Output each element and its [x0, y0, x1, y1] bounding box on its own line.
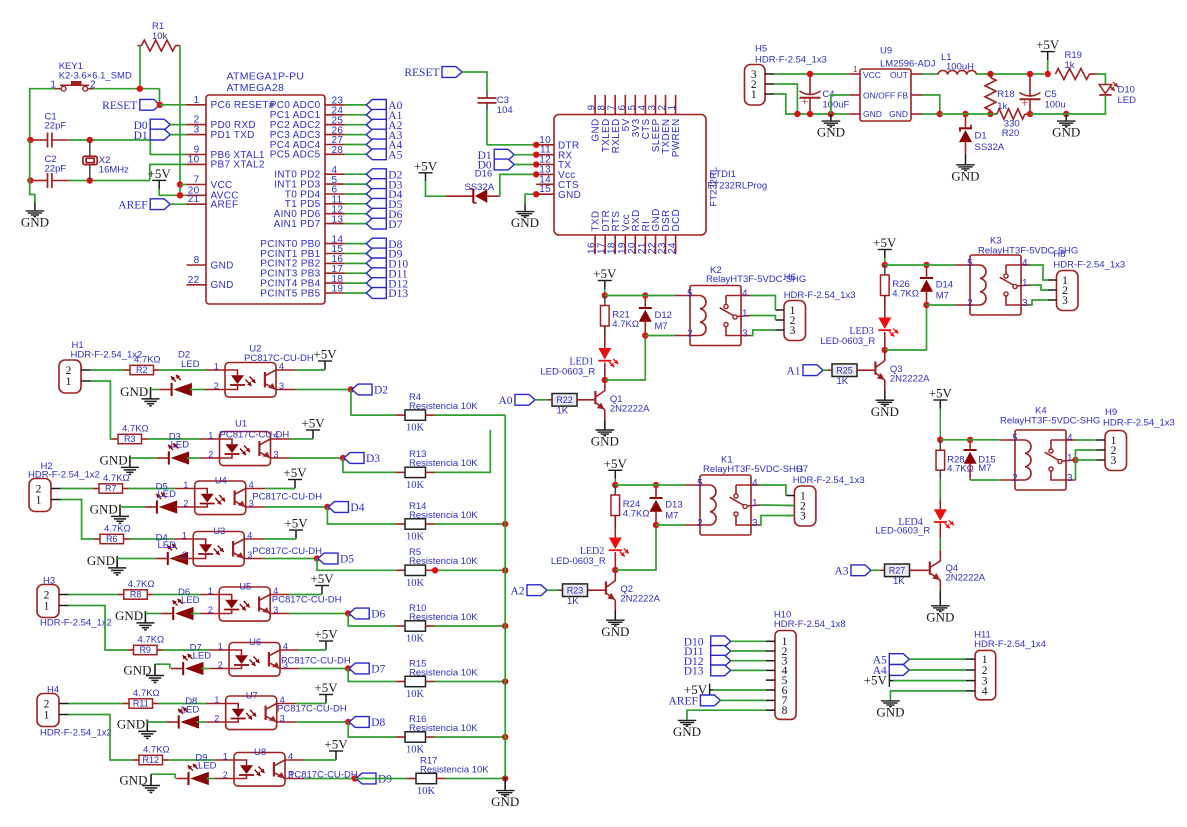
svg-text:R3: R3 — [124, 434, 136, 444]
svg-text:3: 3 — [1111, 455, 1117, 467]
svg-text:4: 4 — [752, 478, 758, 489]
junction RESET — [157, 102, 163, 108]
svg-text:4: 4 — [288, 752, 293, 762]
junction R5 right — [432, 567, 438, 573]
svg-text:4: 4 — [283, 642, 288, 652]
svg-text:2N2222A: 2N2222A — [620, 594, 660, 605]
svg-text:GND: GND — [120, 384, 148, 399]
svg-text:+5V: +5V — [324, 737, 348, 752]
ground GND (C4) — [830, 114, 832, 121]
wire down to RESET flag — [159, 89, 161, 105]
junction bus R5 — [502, 567, 508, 573]
pin 16 PCINT2 PB2 — [325, 262, 345, 264]
pin 9 PB6 XTAL1 — [187, 154, 207, 156]
wire pin 23 to flag A0 — [345, 104, 366, 106]
pin 4 (U6) — [280, 649, 299, 651]
svg-text:3: 3 — [742, 329, 748, 340]
pin 2 (U4) — [175, 506, 194, 508]
svg-text:PC817C-CU-DH: PC817C-CU-DH — [252, 546, 322, 557]
svg-text:+5V: +5V — [929, 386, 953, 401]
junction C4 top — [807, 71, 813, 77]
svg-text:R8: R8 — [130, 590, 142, 600]
resistor R20 330 — [997, 109, 1025, 119]
pin 4 (K2) — [726, 295, 751, 297]
ground GND (row D5) — [116, 556, 118, 568]
crystal X2 16MHz — [89, 140, 91, 156]
lead to LED D2 — [159, 389, 171, 391]
wire D12 bottom to relay K2 pin 2 — [645, 335, 675, 337]
wire D0 to pin 2 — [170, 124, 186, 126]
wire U6 pin3 to flag D7 — [299, 668, 348, 670]
junction VCC pin 7 — [177, 181, 183, 187]
svg-text:3: 3 — [274, 450, 279, 460]
pin 18 PCINT4 PB4 — [325, 282, 345, 284]
resistor R22 1K — [552, 394, 577, 407]
transistor Q1 2N2222A — [594, 391, 596, 404]
svg-text:10K: 10K — [406, 423, 425, 434]
capacitor C5 100u — [1029, 74, 1031, 96]
svg-text:+5V: +5V — [1036, 37, 1060, 52]
wire pin 6 to flag D4 — [345, 193, 366, 195]
svg-text:U1: U1 — [235, 419, 247, 430]
net flag A1 — [366, 109, 386, 120]
svg-text:GND: GND — [211, 260, 234, 271]
pin 17 PCINT3 PB3 — [325, 272, 345, 274]
wire C2 to X2 bottom / XTAL2 net — [69, 180, 150, 182]
LED D6 — [172, 607, 174, 620]
wire D10 to GND rail — [1066, 95, 1105, 114]
junction LED3/collector — [882, 347, 888, 353]
wire C1 to X2 top / XTAL1 net — [69, 139, 150, 141]
svg-text:LED: LED — [181, 705, 200, 716]
svg-text:GND: GND — [558, 190, 581, 201]
svg-text:LED: LED — [1118, 95, 1137, 106]
pin 8 TXLED (top) — [604, 95, 606, 115]
ground GND (FTDI) — [524, 204, 526, 212]
svg-text:2: 2 — [967, 298, 973, 309]
svg-text:H6: H6 — [784, 272, 796, 283]
pin 23 PC0 ADC0 — [325, 104, 345, 106]
svg-text:3: 3 — [194, 125, 200, 136]
wire A1 to R25 — [823, 369, 828, 371]
pin 1 (H1) — [81, 380, 91, 382]
svg-text:1: 1 — [1067, 453, 1073, 464]
wire D5 down to R5 — [317, 559, 396, 571]
svg-text:HDR-F-2.54_1x2: HDR-F-2.54_1x2 — [71, 350, 143, 361]
pin 21 AREF — [187, 203, 207, 205]
svg-text:PC817C-CU-DH: PC817C-CU-DH — [244, 353, 314, 364]
pin 21 RI (bottom) — [644, 235, 646, 254]
svg-text:RESET: RESET — [404, 67, 439, 79]
pin 1 (U5) — [200, 594, 219, 596]
wire +5V to H10 pin6 — [714, 689, 766, 691]
wire H2 to R6 — [61, 500, 95, 540]
wire K4 pin4 to H9 pin1 — [1076, 439, 1097, 441]
wire D13 net to collector node — [615, 525, 656, 570]
wire D10 to H10 pin 1 — [731, 640, 766, 642]
pin 12 TX (left) — [536, 164, 554, 166]
pin 1 (K1) — [747, 505, 760, 506]
svg-text:24: 24 — [667, 242, 678, 254]
svg-text:3: 3 — [790, 325, 796, 337]
net flag D13 (H10) — [711, 665, 731, 676]
diode D14 M7 — [926, 265, 928, 278]
wire LED D8 to U7 pin2 — [197, 721, 207, 723]
pin 10 DTR (left) — [536, 144, 554, 146]
svg-text:D13: D13 — [388, 288, 408, 300]
wire K2 pin3 to H6 pin3 — [751, 330, 776, 336]
pin 1 (H7) — [786, 495, 795, 497]
wire K3 pin1 to H8 pin2 — [1030, 285, 1049, 290]
svg-text:LED: LED — [158, 489, 177, 500]
svg-text:Resistencia 10K: Resistencia 10K — [409, 401, 478, 412]
svg-text:U5: U5 — [239, 582, 251, 593]
junction D15 top — [967, 437, 973, 443]
svg-text:U8: U8 — [254, 747, 266, 758]
net flag D7 — [366, 218, 386, 229]
svg-text:1: 1 — [208, 431, 213, 441]
resistor R1 10k — [142, 40, 176, 51]
ground GND (Q4) — [939, 591, 941, 606]
wire +5V to U3 pin4 — [264, 538, 296, 540]
wire K1 pin1 to H7 pin2 — [760, 504, 795, 507]
pin 24 DCD (bottom) — [675, 235, 677, 254]
pin 15 PCINT1 PB1 — [325, 253, 345, 255]
wire D11 to H10 pin 2 — [731, 650, 766, 652]
wire D13 bottom to relay K1 pin 2 — [656, 524, 685, 526]
junction C2 left — [27, 177, 33, 183]
svg-text:2: 2 — [182, 550, 187, 560]
resistor R17 Resistencia 10K — [407, 778, 416, 780]
wire AREF to H10 pin7 — [720, 699, 765, 701]
wire pin 14 to flag D8 — [345, 243, 366, 245]
svg-text:GND: GND — [117, 716, 145, 731]
ground GND (crystal) — [34, 203, 36, 211]
svg-text:+5V: +5V — [310, 571, 334, 586]
svg-text:R2: R2 — [136, 365, 148, 375]
svg-text:1: 1 — [1022, 278, 1028, 289]
svg-text:LED-0603_R: LED-0603_R — [551, 556, 606, 567]
pin 20 AVCC — [187, 194, 207, 196]
svg-text:LED: LED — [181, 595, 200, 606]
resistor R10 Resistencia 10K — [396, 625, 405, 627]
wire D12 net to collector node — [605, 336, 646, 381]
pin 1 (H8) — [1048, 279, 1057, 281]
svg-text:2: 2 — [223, 770, 228, 780]
svg-text:DCD: DCD — [671, 209, 682, 232]
resistor R28 4.7KOhm — [939, 440, 941, 450]
wire R12 to U8 pin1 — [169, 759, 215, 761]
junction D6 — [345, 610, 351, 616]
wire +5V down to D16 — [426, 181, 447, 196]
pin 2 (K3 coil-) — [955, 304, 980, 306]
LED D2 — [171, 383, 173, 396]
svg-text:GND: GND — [123, 663, 151, 678]
pin 2 (U1) — [200, 457, 219, 459]
svg-text:VCC: VCC — [863, 70, 881, 80]
svg-text:8: 8 — [194, 255, 200, 266]
svg-text:PC817C-CU-DH: PC817C-CU-DH — [281, 656, 351, 667]
pin 4 (U2) — [276, 369, 295, 371]
pin 1 (H3) — [59, 605, 69, 607]
svg-text:+5V: +5V — [283, 465, 307, 480]
pin 4 (H10) — [766, 669, 775, 671]
junction bus R14 — [502, 521, 508, 527]
resistor R27 1K — [885, 564, 910, 577]
wire R16 to bus — [435, 736, 506, 738]
pin 4 (U5) — [270, 594, 289, 596]
svg-text:R23: R23 — [567, 585, 584, 595]
svg-text:D2: D2 — [374, 385, 388, 397]
svg-text:R6: R6 — [106, 534, 118, 544]
wire H5 pin1 to GND rail — [774, 94, 849, 114]
junction D14 top — [923, 262, 929, 268]
wire D12 to H10 pin 3 — [731, 660, 766, 662]
wire R10 to bus — [435, 625, 506, 627]
svg-text:3: 3 — [279, 381, 284, 391]
wire H11 pin4 to GND — [890, 691, 966, 700]
junction AVCC pin 20 — [177, 192, 183, 198]
svg-text:D8: D8 — [371, 717, 385, 729]
net flag D1 (to TXD) — [150, 129, 170, 140]
svg-text:1: 1 — [208, 586, 213, 596]
svg-text:LED-0603_R: LED-0603_R — [540, 367, 595, 378]
pin 1 (K4) — [1062, 460, 1075, 461]
junction D1 top — [962, 111, 968, 117]
svg-text:GND: GND — [511, 215, 539, 230]
pin 4 (U4) — [246, 488, 265, 490]
wire R9 to U6 pin1 — [163, 649, 210, 651]
optocoupler U7 PC817C-CU-DH — [226, 696, 277, 730]
svg-text:A3: A3 — [834, 566, 848, 578]
pin 3 PD1 TXD — [187, 134, 207, 136]
resistor R9 4.7KOhm — [128, 649, 134, 651]
svg-text:2: 2 — [183, 499, 188, 509]
svg-text:1: 1 — [36, 494, 42, 506]
svg-text:H7: H7 — [796, 464, 808, 475]
resistor R19 1k — [1055, 69, 1089, 80]
svg-text:R9: R9 — [139, 645, 151, 655]
pin 1 VCC (U9) — [849, 73, 860, 75]
svg-text:D1: D1 — [975, 131, 987, 142]
svg-text:22: 22 — [188, 275, 200, 286]
junction +5V R26 — [882, 262, 888, 268]
pin 1 (U3) — [174, 538, 193, 540]
junction +5V R28 — [937, 437, 943, 443]
svg-text:GND: GND — [876, 705, 904, 720]
junction D8 — [345, 719, 351, 725]
svg-text:1: 1 — [218, 642, 223, 652]
wire +5V to U4 pin4 — [265, 488, 295, 490]
pin 17 DTR (bottom) — [604, 235, 606, 254]
pin 20 RXD (bottom) — [634, 235, 636, 254]
net flag D3 (row) — [344, 453, 364, 464]
ground GND (row D2) — [150, 387, 152, 399]
lead to LED D9 — [176, 778, 188, 780]
net flag D12 — [366, 278, 386, 289]
svg-text:LED: LED — [193, 651, 212, 662]
lead to LED D7 — [171, 668, 183, 670]
net flag D6 — [366, 208, 386, 219]
svg-text:1: 1 — [752, 498, 758, 509]
wire +5V to U2 pin4 — [295, 369, 325, 371]
net flag A0 — [515, 394, 535, 405]
ground GND (Q2) — [614, 610, 616, 619]
wire R17 to bus — [446, 778, 506, 780]
wire D1 to pin 11 — [514, 154, 536, 156]
resistor R5 Resistencia 10K — [396, 569, 405, 571]
svg-text:+5V: +5V — [313, 347, 337, 362]
LED D9 — [188, 772, 190, 785]
junction D13 bottom — [653, 522, 659, 528]
pin 5 INT1 PD3 — [325, 183, 345, 185]
pin 26 PC3 ADC3 — [325, 134, 345, 136]
svg-text:4.7KΩ: 4.7KΩ — [103, 473, 130, 484]
ground GND (D1) — [965, 154, 967, 165]
junction KEY1/R1 — [137, 86, 143, 92]
pin 4 (U3) — [244, 538, 263, 540]
svg-text:1: 1 — [44, 600, 50, 612]
pin 12 AIN0 PD6 — [325, 213, 345, 215]
net flag D13 — [366, 288, 386, 299]
svg-text:LM2596-ADJ: LM2596-ADJ — [880, 59, 936, 70]
net flag D8 (row) — [349, 717, 369, 728]
svg-text:GND: GND — [87, 553, 115, 568]
wire LED D9 to U8 pin2 — [206, 778, 214, 780]
junction D4 — [324, 504, 330, 510]
svg-text:4: 4 — [247, 531, 252, 541]
pin 1 (H11) — [966, 658, 975, 660]
ground GND (Q1) — [604, 420, 606, 429]
svg-text:HDR-F-2.54_1x3: HDR-F-2.54_1x3 — [793, 475, 865, 486]
net flag RESET (FTDI) — [442, 67, 462, 78]
svg-text:22pF: 22pF — [45, 163, 67, 174]
pin 3 (H11) — [966, 680, 975, 682]
wire pin 13 to flag D7 — [345, 223, 366, 225]
LED LED4 LED-0603_R — [939, 499, 941, 509]
resistor R6 4.7KOhm — [94, 538, 100, 540]
pin 6 5V (top) — [624, 95, 626, 115]
svg-text:H3: H3 — [43, 576, 55, 587]
wire U8 pin3 to flag D9 — [304, 778, 355, 780]
pin 2 (U5) — [200, 613, 219, 615]
svg-text:1K: 1K — [567, 596, 579, 607]
svg-text:LED: LED — [181, 359, 200, 370]
wire D14 bottom to relay K3 pin 2 — [927, 304, 956, 306]
svg-text:4.7KΩ: 4.7KΩ — [143, 745, 170, 756]
resistor R13 Resistencia 10K — [396, 471, 405, 473]
svg-text:1: 1 — [214, 362, 219, 372]
pin 11 T1 PD5 — [325, 203, 345, 205]
wire ON/OFF to GND rail — [831, 95, 850, 114]
wire gnd to LED D3 — [130, 457, 157, 459]
wire D2 down to R4 — [351, 390, 396, 416]
svg-text:RelayHT3F-5VDC-SHG: RelayHT3F-5VDC-SHG — [703, 464, 803, 475]
net flag D3 — [366, 179, 386, 190]
coil (K1) — [710, 485, 716, 525]
svg-text:21: 21 — [188, 194, 200, 205]
net flag A5 — [366, 149, 386, 160]
pin 2 (H9) — [1097, 449, 1106, 451]
pin 2 (K2 coil-) — [675, 335, 700, 337]
net flag D8 — [366, 238, 386, 249]
svg-text:2: 2 — [208, 605, 213, 615]
wire +5V node to relay K3 pin 5 — [885, 264, 955, 266]
svg-text:+5V: +5V — [284, 516, 308, 531]
svg-text:PC817C-CU-DH: PC817C-CU-DH — [252, 492, 322, 503]
svg-text:Resistencia 10K: Resistencia 10K — [409, 612, 478, 623]
svg-text:1: 1 — [742, 309, 748, 320]
pin 3 (U8) — [285, 778, 304, 780]
ground GND (row D6) — [144, 611, 146, 623]
pin 1 (H6) — [776, 309, 785, 311]
svg-text:1: 1 — [214, 695, 219, 705]
pin 3 (H8) — [1048, 299, 1057, 301]
pin 1 (H9) — [1097, 439, 1106, 441]
wire LED D4 to U4 pin2 — [174, 506, 177, 508]
pin 1 (H4) — [59, 714, 69, 716]
svg-text:5: 5 — [697, 478, 703, 489]
optocoupler U6 PC817C-CU-DH — [229, 643, 280, 677]
svg-text:D14: D14 — [936, 280, 953, 291]
svg-text:R11: R11 — [133, 699, 149, 709]
pin 3 (H7) — [786, 515, 795, 517]
svg-text:Resistencia 10K: Resistencia 10K — [409, 556, 478, 567]
wire GND pin 15 — [525, 194, 536, 203]
wire pin 18 to flag D12 — [345, 282, 366, 284]
svg-text:FB: FB — [897, 91, 908, 101]
svg-text:SS32A: SS32A — [465, 182, 495, 193]
pin 2 (H5) — [765, 83, 774, 85]
wire pin 28 to flag A5 — [345, 153, 366, 155]
pin 4 (U1) — [271, 438, 290, 440]
pin 22 GND (bottom) — [655, 235, 657, 254]
wire D15 bottom to relay K4 pin 2 — [970, 479, 1000, 481]
junction H5 pin2 gnd — [794, 111, 800, 117]
svg-text:+5V: +5V — [414, 158, 438, 173]
svg-text:HDR-F-2.54_1x2: HDR-F-2.54_1x2 — [40, 617, 112, 628]
wire gnd to LED D4 — [120, 506, 145, 508]
svg-text:3: 3 — [1022, 298, 1028, 309]
wire R13 up (dangling) — [435, 430, 491, 473]
pin 24 PC1 ADC1 — [325, 114, 345, 116]
svg-text:5: 5 — [1012, 433, 1018, 444]
lead to LED D6 — [161, 613, 173, 615]
pin 2 PD0 RXD — [187, 124, 207, 126]
svg-text:+5V: +5V — [148, 166, 172, 181]
svg-text:GND: GND — [951, 168, 979, 183]
svg-text:H4: H4 — [47, 684, 59, 695]
pin 5 (K2 coil+) — [675, 295, 700, 297]
wire U5 pin3 to flag D6 — [290, 613, 349, 615]
svg-text:1: 1 — [194, 95, 200, 106]
svg-text:Resistencia 10K: Resistencia 10K — [409, 458, 478, 469]
junction D12 bottom — [642, 332, 648, 338]
pin 19 PCINT5 PB5 — [325, 292, 345, 294]
pin 1 (U2) — [206, 369, 225, 371]
svg-text:LED: LED — [158, 540, 177, 551]
wire D13 to H10 pin 4 — [731, 669, 766, 671]
net flag D6 (row) — [349, 608, 369, 619]
svg-text:7: 7 — [194, 175, 200, 186]
svg-text:R12: R12 — [143, 755, 160, 765]
LED LED1 LED-0603_R — [604, 338, 606, 349]
junction C5 top — [1027, 71, 1033, 77]
pin 4 (K1) — [736, 484, 761, 486]
wire D6 down to R10 — [348, 614, 396, 627]
wire XTAL2 to pin 10 — [150, 164, 187, 180]
net flag A4 (H11) — [889, 665, 909, 676]
